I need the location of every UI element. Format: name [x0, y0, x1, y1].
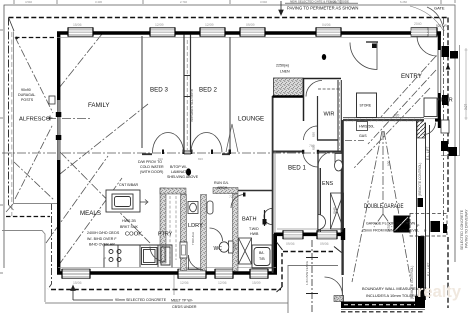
svg-text:(WITH DOOR): (WITH DOOR) [140, 170, 163, 174]
svg-text:HWS 50L: HWS 50L [359, 125, 374, 129]
svg-text:(REMOTE CONTROL): (REMOTE CONTROL) [418, 163, 422, 196]
svg-text:BRKT SNK: BRKT SNK [120, 225, 139, 229]
gate lines [427, 7, 444, 31]
ens east wall [341, 151, 343, 232]
roof diagonals family/meals [46, 34, 150, 266]
svg-text:12/09: 12/09 [155, 23, 164, 27]
door arc hall closet [350, 43, 377, 70]
hall cavity slider [226, 124, 238, 152]
boundary dash arrow right [446, 64, 451, 70]
door arc bed2 [191, 133, 222, 153]
wc toilet [219, 241, 233, 253]
svg-text:1.8m B/W FENCE: 1.8m B/W FENCE [305, 261, 309, 285]
garage corner piers [394, 216, 410, 233]
svg-text:760: 760 [309, 144, 315, 148]
svg-text:12/09: 12/09 [205, 23, 214, 27]
alfresco dashed outline [6, 216, 50, 218]
site boundary dashed right [447, 18, 449, 213]
roof diagonals alfresco [14, 37, 54, 200]
linen closet [273, 78, 305, 97]
svg-text:realty: realty [417, 283, 462, 301]
garage entry door arc [424, 123, 436, 135]
door arc ldry out [189, 255, 204, 270]
svg-text:04/06: 04/06 [322, 23, 331, 27]
svg-text:D/W PROV TO: D/W PROV TO [138, 160, 162, 164]
svg-text:09/06: 09/06 [320, 242, 329, 246]
svg-text:12/06: 12/06 [218, 281, 227, 285]
svg-text:BED 1: BED 1 [288, 165, 306, 172]
svg-text:DOUBLE GARAGE: DOUBLE GARAGE [364, 203, 404, 210]
svg-text:2040: 2040 [414, 22, 422, 26]
bed1 west wall inner [274, 152, 276, 233]
svg-text:820: 820 [335, 297, 341, 301]
ohd note leader [104, 247, 106, 258]
svg-text:ENS: ENS [322, 181, 333, 187]
broom box ldry wall [180, 242, 187, 258]
svg-text:3.430: 3.430 [95, 0, 102, 4]
porch outer lines [441, 5, 460, 156]
inner face top [57, 36, 438, 38]
svg-text:PTRY: PTRY [158, 232, 173, 238]
site boundary dashed top [9, 17, 449, 19]
svg-text:09/09: 09/09 [246, 23, 255, 27]
dim ticks top [14, 0, 455, 4]
svg-text:W/ROBES SLD MIRR: W/ROBES SLD MIRR [190, 88, 194, 122]
dash start dot [15, 37, 18, 40]
door arc hall-entry [306, 81, 322, 97]
exterior wall west [57, 32, 60, 274]
svg-text:SELECTED CONCRETE: SELECTED CONCRETE [460, 209, 464, 250]
meet tp leader [173, 275, 175, 295]
west wall slider band [57, 100, 60, 160]
svg-text:15/06: 15/06 [73, 23, 82, 27]
room labels [19, 73, 453, 252]
exterior wall bottom (meals-bath) [57, 271, 277, 275]
roof diagonals entry [354, 56, 436, 168]
svg-text:LDRY: LDRY [188, 223, 203, 229]
arrow paving note [279, 1, 283, 15]
alfresco slab gray lines [2, 32, 288, 304]
door arc bath [231, 195, 245, 209]
boundary dash-dot left [8, 18, 10, 206]
svg-text:820: 820 [198, 157, 203, 161]
bed1/ens bottom wall [274, 233, 344, 237]
svg-text:LAMINATE: LAMINATE [171, 170, 189, 174]
ens toilet [335, 154, 343, 172]
svg-text:2400H O/HD CB'DS: 2400H O/HD CB'DS [87, 231, 120, 235]
svg-text:09/06: 09/06 [286, 242, 295, 246]
svg-text:BED 3: BED 3 [150, 87, 168, 94]
bath tub [252, 245, 272, 268]
svg-text:920: 920 [387, 160, 391, 166]
bed south wall segments [142, 153, 230, 155]
svg-text:SHELVING ABOVE: SHELVING ABOVE [167, 175, 199, 179]
windows bottom wall [62, 269, 268, 279]
svg-text:RUN G/L: RUN G/L [214, 181, 229, 185]
svg-text:TROUGH: TROUGH [191, 232, 195, 245]
svg-text:E.L. LIFT: E.L. LIFT [426, 146, 430, 160]
svg-text:CB'DS UNDER: CB'DS UNDER [172, 305, 197, 309]
bath east jog wall [274, 234, 277, 273]
robe wall bed3/bed2 [184, 35, 191, 153]
entry sidelight window [411, 28, 428, 37]
roof diagonals garage [352, 131, 411, 282]
interior wall bed2 east [229, 37, 231, 152]
porch dim line [465, 48, 468, 120]
svg-text:LNEN: LNEN [280, 70, 290, 74]
entry se closet [424, 98, 437, 117]
svg-text:ALFRESCO: ALFRESCO [19, 117, 51, 123]
garage west wall [341, 120, 343, 302]
wc door arc [210, 228, 223, 241]
svg-text:SHR: SHR [333, 207, 337, 214]
svg-text:PAVING TO DRIVEWAY: PAVING TO DRIVEWAY [465, 209, 469, 248]
svg-text:920: 920 [394, 114, 400, 118]
windows top wall [68, 28, 437, 37]
ens shower [331, 193, 344, 229]
svg-text:(REMOTE CONTROL): (REMOTE CONTROL) [410, 266, 414, 299]
door arc ens [318, 152, 333, 167]
svg-text:W/- B/HD OVER F: W/- B/HD OVER F [87, 237, 117, 241]
svg-text:COLD WATER: COLD WATER [140, 165, 164, 169]
inner face bottom [58, 266, 276, 268]
svg-text:ARCH: ARCH [217, 186, 228, 190]
paving dashed bottom [51, 289, 281, 291]
bed1 north wall [273, 151, 342, 153]
svg-text:MEET TP W/-: MEET TP W/- [171, 299, 194, 303]
ens basin [318, 215, 326, 230]
porch piers [441, 46, 458, 156]
door stop dot [322, 54, 326, 60]
svg-text:920 DR: 920 DR [436, 24, 448, 28]
P labels piers [417, 224, 427, 233]
wc basin [207, 201, 213, 214]
svg-text:1470: 1470 [387, 225, 391, 232]
pantry shelves dashed [170, 196, 176, 260]
svg-text:4.540: 4.540 [25, 0, 32, 4]
svg-text:NEW SELECTED GATE & FENCE TO S: NEW SELECTED GATE & FENCE TO SIDE [290, 0, 349, 4]
door size labels [158, 157, 203, 161]
door jamb ticks [162, 150, 319, 155]
svg-text:E.L. LIFT: E.L. LIFT [427, 262, 431, 276]
svg-text:12/06: 12/06 [180, 281, 189, 285]
svg-text:6.260: 6.260 [400, 0, 407, 4]
ldry trough [188, 202, 198, 214]
wir west wall [317, 96, 319, 140]
svg-text:B/L: B/L [259, 251, 264, 255]
kitchen bench along wall [104, 245, 172, 268]
hws unit [357, 122, 368, 131]
garage east boundary wall [417, 121, 430, 300]
bed1/ens wall [318, 152, 320, 233]
svg-text:PAVING TO PERIMETER AS SHOWN: PAVING TO PERIMETER AS SHOWN [287, 6, 358, 11]
btop dot [186, 168, 191, 175]
svg-text:MEALS: MEALS [80, 210, 101, 217]
store closet [357, 93, 377, 118]
garage north wall [343, 119, 441, 121]
svg-text:GATE: GATE [434, 6, 445, 11]
svg-text:15/09: 15/09 [252, 281, 261, 285]
exterior wall top [57, 31, 441, 34]
rotated small texts [190, 24, 469, 299]
svg-text:POSTS: POSTS [21, 98, 34, 102]
svg-text:POR: POR [441, 98, 453, 104]
svg-text:BED 2: BED 2 [199, 87, 217, 94]
paving edge right of bath [288, 266, 338, 313]
svg-text:3.640: 3.640 [260, 0, 267, 4]
svg-text:B/TOP W/-: B/TOP W/- [170, 165, 188, 169]
interior wall bed3 west [141, 36, 143, 148]
wir shelf dashes [318, 88, 340, 90]
paving dashed bath step [282, 252, 333, 288]
svg-text:90x90: 90x90 [21, 88, 31, 92]
svg-text:COOK: COOK [125, 232, 142, 238]
por arrow [437, 98, 441, 101]
bath shower [239, 238, 252, 264]
svg-text:BATH: BATH [242, 217, 257, 223]
svg-text:SHR: SHR [234, 243, 238, 250]
entry east wall [438, 32, 441, 51]
svg-text:2.740: 2.740 [180, 0, 187, 4]
svg-text:GAS: GAS [359, 134, 367, 138]
svg-text:CNT B/BAR: CNT B/BAR [119, 183, 139, 187]
gray window labels [73, 22, 422, 301]
roof ridge dash-dot [2, 152, 343, 154]
svg-text:STORE: STORE [360, 104, 372, 108]
wir east wall [338, 80, 341, 151]
dim microtext top [25, 0, 407, 4]
svg-text:720: 720 [229, 195, 235, 199]
hall north wall [303, 79, 341, 122]
garage panel lift door black [418, 236, 425, 300]
lounge/bath east wall [272, 96, 274, 273]
svg-text:DURAGAL: DURAGAL [18, 93, 35, 97]
boundary wall bottom black band [341, 302, 425, 309]
svg-text:2250(w): 2250(w) [276, 64, 289, 68]
svg-text:HWB: HWB [250, 232, 259, 236]
svg-text:90mm SELECTED CONCRETE: 90mm SELECTED CONCRETE [115, 298, 167, 302]
svg-text:15/06: 15/06 [73, 281, 82, 285]
door arc bed3 [153, 133, 184, 153]
fence dash-dot center bottom [311, 240, 313, 313]
bath vanity basin [264, 209, 272, 225]
svg-text:ENTRY: ENTRY [401, 73, 422, 80]
kitchen island bench [106, 190, 148, 212]
bath door leaf [264, 210, 266, 226]
svg-text:4.70: 4.70 [406, 217, 410, 224]
svg-text:HWS 2B: HWS 2B [122, 219, 136, 223]
wir door arc [304, 126, 318, 140]
door arc garage rear [325, 277, 343, 295]
svg-text:820: 820 [312, 132, 316, 137]
alfresco gray dashed edge [11, 32, 13, 216]
garage north wall hatch ticks [346, 119, 421, 122]
datum plus [48, 116, 53, 121]
arrow concrete note [71, 286, 113, 301]
svg-text:WIR: WIR [324, 112, 335, 118]
svg-text:T/B: T/B [259, 257, 265, 261]
garage north wall inner line [343, 117, 426, 119]
svg-text:T.W/D: T.W/D [249, 227, 259, 231]
paving corner diagonals [277, 242, 342, 292]
svg-text:B/HD OVER HP: B/HD OVER HP [89, 243, 115, 247]
corner diagonal nw [9, 18, 15, 32]
windows bed1 bottom [283, 231, 337, 240]
door arc bed1 [303, 152, 318, 167]
wir south wall [317, 139, 338, 141]
svg-text:LOUNGE: LOUNGE [238, 116, 264, 123]
svg-text:WC: WC [214, 246, 223, 252]
stipple walls pantry/ldry/wc/bath [160, 188, 238, 272]
door arc pantry [150, 247, 165, 262]
fence dash-dot left lower [48, 203, 52, 289]
820 labels [312, 132, 316, 150]
svg-text:FAMILY: FAMILY [88, 102, 110, 109]
door arc entry front [417, 36, 437, 56]
porch meter box [441, 120, 449, 133]
porch dash-dot [443, 18, 445, 230]
bath north wall [228, 190, 272, 192]
